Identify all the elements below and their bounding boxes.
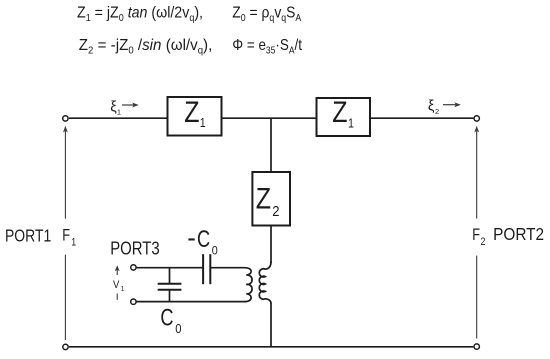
label xi2 with arrow bbox=[428, 99, 461, 117]
label xi1 with arrow bbox=[110, 99, 138, 116]
wire top rail right segment bbox=[370, 117, 473, 119]
svg-text:F: F bbox=[472, 225, 480, 244]
svg-text:Z: Z bbox=[256, 182, 271, 215]
impedance box Z2 bbox=[252, 172, 290, 226]
wire top rail middle segment bbox=[222, 117, 317, 119]
equation line 1 left: Z1 = jZ0 tan(wl/2vq) bbox=[77, 4, 203, 24]
wire bottom rail bbox=[69, 346, 473, 348]
transformer left coil bbox=[245, 268, 253, 302]
svg-text:1: 1 bbox=[117, 108, 121, 117]
svg-text:F: F bbox=[62, 226, 70, 245]
svg-text:PORT1: PORT1 bbox=[5, 226, 51, 246]
terminal PORT1 top circle bbox=[63, 116, 68, 121]
svg-text:2: 2 bbox=[272, 203, 279, 219]
port1 F1 arrow line bbox=[63, 126, 68, 340]
V1 arrow and label bbox=[113, 265, 124, 300]
label PORT2 bbox=[493, 224, 544, 244]
equation line 1 right: Z0 = rho_q v_q S_A bbox=[232, 5, 302, 23]
equation line 2 left: Z2 = -jZ0 /sin(wl/vq) bbox=[79, 37, 213, 57]
label PORT3 bbox=[110, 238, 160, 259]
svg-text:Z1 = jZ0 tan (ωl/2vq),: Z1 = jZ0 tan (ωl/2vq), bbox=[77, 4, 203, 24]
terminal PORT3 bottom circle bbox=[131, 299, 136, 304]
transformer right coil bbox=[259, 262, 271, 304]
svg-text:Z: Z bbox=[332, 95, 347, 128]
capacitor C0 branch bbox=[158, 268, 182, 302]
svg-text:ξ: ξ bbox=[428, 99, 435, 115]
terminal PORT2 bottom circle bbox=[474, 344, 479, 349]
svg-text:2: 2 bbox=[435, 107, 439, 116]
port3 wire top left bbox=[136, 267, 203, 269]
svg-text:Z2 = -jZ0 /sin (ωl/vq),: Z2 = -jZ0 /sin (ωl/vq), bbox=[79, 37, 213, 57]
svg-text:C: C bbox=[160, 304, 173, 331]
label C0 bbox=[160, 304, 173, 331]
svg-text:Z: Z bbox=[184, 95, 199, 128]
svg-text:1: 1 bbox=[348, 117, 354, 131]
port3 wire top right bbox=[210, 267, 244, 269]
capacitor -C0 plates bbox=[203, 254, 210, 284]
svg-text:Φ = e35·SA/t: Φ = e35·SA/t bbox=[232, 37, 302, 55]
port3 wire bottom bbox=[136, 301, 246, 303]
label F2 bbox=[472, 225, 480, 244]
svg-text:PORT2: PORT2 bbox=[493, 224, 544, 244]
label F1 bbox=[62, 226, 70, 245]
svg-text:PORT3: PORT3 bbox=[110, 238, 160, 259]
wire junction to Z2 bbox=[270, 118, 272, 172]
svg-text:1: 1 bbox=[200, 116, 206, 130]
terminal PORT2 top circle bbox=[474, 116, 479, 121]
terminal PORT3 top circle bbox=[131, 265, 136, 270]
equation line 2 right: Phi = e35 SA/t bbox=[232, 37, 302, 55]
svg-text:0: 0 bbox=[175, 322, 182, 337]
terminal PORT1 bottom circle bbox=[63, 344, 68, 349]
svg-text:1: 1 bbox=[121, 285, 125, 293]
wire transformer to bottom rail bbox=[270, 303, 272, 347]
svg-text:C: C bbox=[197, 225, 210, 252]
svg-text:V: V bbox=[113, 279, 119, 291]
label -C0 bbox=[188, 238, 194, 240]
impedance box Z1 (right) bbox=[317, 95, 371, 136]
svg-text:2: 2 bbox=[481, 236, 486, 248]
wire Z2 to transformer bbox=[270, 226, 272, 264]
wire top rail left segment bbox=[69, 117, 168, 119]
impedance box Z1 (left) bbox=[168, 95, 222, 135]
svg-text:Z0 = ρqvqSA: Z0 = ρqvqSA bbox=[232, 5, 302, 23]
svg-text:1: 1 bbox=[71, 237, 76, 249]
port2 F2 arrow line bbox=[474, 126, 479, 339]
svg-text:0: 0 bbox=[212, 245, 218, 258]
label PORT1 bbox=[5, 226, 51, 246]
